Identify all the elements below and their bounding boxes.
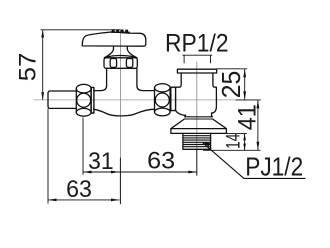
stem [114, 46, 128, 49]
right body [176, 73, 182, 87]
arrow 25 top [243, 69, 246, 78]
svg-text:63: 63 [147, 148, 175, 175]
wire vertical valve axis [119, 30, 121, 158]
svg-text:57: 57 [15, 53, 42, 82]
arrowheads [41, 30, 259, 201]
arrow 25 bottom [243, 91, 246, 100]
svg-text:14: 14 [222, 134, 244, 149]
wire vertical right-port axis [196, 62, 198, 149]
arrow 57 bottom [41, 92, 44, 100]
wire extension for 31 left [82, 118, 84, 175]
top port flange [177, 69, 216, 73]
right union nut [155, 84, 171, 92]
svg-text:41: 41 [234, 104, 262, 130]
dimension 14 [226, 132, 247, 134]
svg-text:25: 25 [216, 71, 246, 99]
arrow 57 top [41, 30, 44, 38]
dimension graphics [41, 30, 306, 204]
handle serrations [111, 29, 130, 33]
arrow 14 top [243, 133, 246, 140]
wire horizontal center axis [34, 99, 252, 101]
svg-text:RP1/2: RP1/2 [165, 29, 229, 57]
dimension RP1/2 line [182, 54, 212, 56]
arrow leader PJ [202, 142, 211, 147]
dimension bottom 63 line [48, 199, 120, 201]
left union nut [76, 84, 91, 93]
arrow 41 bottom [257, 142, 260, 151]
dimension 57 line [42, 30, 44, 100]
left pipe [48, 91, 76, 108]
wire top extension line (handle top) [41, 29, 121, 31]
wire extension pipe end [47, 109, 49, 204]
dimension 31/63 line [83, 171, 197, 173]
arrow bottom 63 right [111, 199, 120, 202]
leader PJ1/2 [203, 143, 306, 179]
svg-text:63: 63 [66, 176, 92, 203]
svg-text:31: 31 [88, 148, 114, 175]
arrow bottom 63 left [48, 199, 57, 202]
handle [82, 32, 146, 46]
threaded tail [183, 133, 211, 149]
arrow 41 top [257, 100, 260, 109]
arrow 31 right [111, 171, 120, 174]
right body flange band [171, 87, 176, 110]
bell flare [184, 117, 212, 119]
pipe belly underside [94, 109, 154, 116]
svg-text:PJ1/2: PJ1/2 [245, 151, 303, 181]
valve body column [94, 68, 107, 90]
arrow 63 right [188, 171, 197, 174]
dimension 25 [217, 68, 248, 70]
dimension 41 [257, 100, 259, 150]
packing nut [104, 58, 137, 69]
arrow 31 left [83, 171, 92, 174]
dimension texts [15, 29, 304, 203]
arrow 14 bottom [243, 144, 246, 151]
bonnet skirt [104, 49, 137, 58]
